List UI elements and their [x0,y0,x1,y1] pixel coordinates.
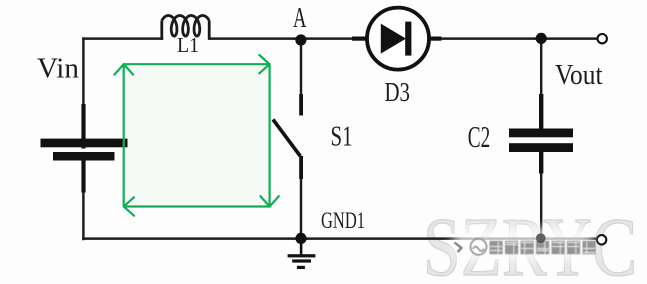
node A junction dot [295,34,306,45]
capacitor C2 [509,94,573,174]
ground [288,238,316,269]
wire: bottom rail [83,237,597,239]
wire: inductor right to right terminal [210,37,598,39]
wire: loop left edge (arrow up) [115,64,134,206]
svg-text:D3: D3 [385,76,411,107]
terminal bottom right [597,235,606,244]
green current loop [115,55,279,216]
junction dot C2 bottom (over watermark) [536,233,546,243]
wire: switch branch lower [300,157,302,238]
junction dot C2 bottom [536,233,546,243]
wire: C2 branch lower [540,151,542,238]
svg-text:Vout: Vout [555,59,603,91]
wire: top rail from Vin corner to inductor [83,37,162,39]
svg-text:L1: L1 [177,33,199,57]
junction dot at C2 top [536,33,547,44]
svg-text:S1: S1 [331,120,353,152]
diode D3 [352,8,442,70]
battery Vin source [41,104,128,193]
svg-text:A: A [293,2,307,34]
wire: loop top edge (arrow right) [124,55,270,73]
svg-text:GND1: GND1 [321,208,365,233]
wire: switch branch upper [300,41,302,96]
watermark chip glow [452,227,594,261]
svg-text:Vin: Vin [37,52,79,84]
terminal top right [598,34,607,43]
wire: loop bottom edge (arrow left) [124,197,270,215]
inductor L1 [162,16,209,40]
watermark logo [455,239,487,255]
wire: left vertical Vin branch lower [82,160,84,239]
junction dot GND1 [295,233,306,244]
wire: C2 branch upper [540,39,542,130]
wire: left vertical Vin branch upper [82,39,84,140]
switch S1 [273,94,303,179]
svg-text:C2: C2 [468,119,491,154]
wire: loop right edge (arrow down) [260,64,278,206]
watermark Chinese text [490,241,596,254]
